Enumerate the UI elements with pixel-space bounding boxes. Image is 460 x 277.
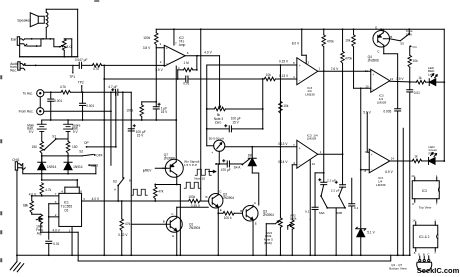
svg-text:13: 13 (390, 77, 394, 81)
wire supply rail y120 (42, 119, 177, 121)
wire ear bottom rail (20, 45, 78, 56)
resistor 100k input bias (143, 29, 158, 48)
wire jack link vertical (39, 97, 41, 108)
svg-text:0.001: 0.001 (54, 99, 62, 103)
0.14V label pin6 (278, 160, 297, 165)
svg-text:B: B (163, 220, 165, 224)
scan artifacts left edge (0, 0, 99, 262)
wire ear top contact (25, 38, 54, 40)
svg-text:10: 10 (365, 84, 369, 88)
svg-text:100k: 100k (126, 108, 133, 112)
wire Vcc row to IC1 (41, 174, 79, 194)
pin1 wire IC1 to ground (69, 226, 73, 256)
feedback right column (196, 56, 198, 71)
capacitor 470uF (221, 160, 243, 172)
svg-text:5.1 V: 5.1 V (367, 230, 375, 234)
svg-text:Top View: Top View (419, 206, 432, 210)
IC2 label (179, 36, 186, 47)
svg-text:2N3906: 2N3906 (164, 156, 175, 160)
svg-text:Ear: Ear (11, 37, 17, 41)
wire ear ring contact (27, 39, 41, 47)
resistor 10k vertical divider (279, 101, 289, 113)
svg-text:7.9 V: 7.9 V (396, 77, 404, 81)
resistor 150 main (32, 141, 44, 162)
pin7 wire to bus (174, 29, 177, 45)
wire battery row to S2 (41, 155, 82, 157)
pin6 output wire (185, 50, 219, 56)
right bus column (443, 29, 445, 161)
capacitor 100uF 15V meter (207, 117, 263, 132)
svg-text:10k: 10k (283, 104, 289, 108)
svg-text:11: 11 (365, 69, 368, 73)
diode D2 1N914 (64, 156, 83, 174)
wire speaker box right (77, 9, 79, 57)
wire meter bottom (218, 151, 220, 164)
svg-text:150: 150 (32, 145, 38, 149)
column x180 to ground (179, 184, 181, 256)
svg-text:0.14 V: 0.14 V (278, 160, 288, 164)
zener diode 5.1V (356, 227, 376, 256)
IC1and2 DIP package (412, 218, 438, 255)
svg-text:7.6 V: 7.6 V (331, 67, 339, 71)
switch S6B (327, 187, 346, 256)
svg-text:SeekIC.com: SeekIC.com (417, 266, 460, 275)
meter M1 50-0-50 uA (209, 136, 225, 155)
svg-text:A: A (114, 187, 116, 191)
svg-text:+: + (166, 47, 168, 51)
svg-text:14: 14 (411, 174, 415, 178)
svg-text:Bottom View: Bottom View (389, 267, 407, 271)
svg-text:0.01: 0.01 (183, 81, 189, 85)
resistor 4.7k bias (40, 183, 52, 196)
potentiometer 100k freq adj (32, 213, 44, 236)
wire jog to 0.1 column (315, 172, 325, 207)
svg-text:0.1: 0.1 (354, 206, 359, 210)
TP1 test point (69, 65, 75, 79)
switch S1 (43, 134, 68, 150)
svg-text:2N3904: 2N3904 (189, 226, 200, 230)
svg-text:15 V: 15 V (232, 120, 239, 124)
svg-text:0.01: 0.01 (414, 91, 420, 95)
0.15V label pin5 (279, 59, 295, 66)
svg-text:C: C (427, 253, 429, 257)
wire zero-set column x206 (206, 65, 208, 146)
wire resistor to cap 4.7uF (70, 91, 115, 93)
wire Q4 collector to 0.005 column (384, 54, 398, 109)
svg-text:LM339: LM339 (305, 92, 315, 96)
wire diode output row (41, 173, 96, 175)
svg-text:3.9 V: 3.9 V (155, 68, 163, 72)
feedback left column (177, 70, 179, 79)
transformer coil T1 (46, 9, 48, 39)
svg-text:On: On (413, 45, 417, 49)
wire 4.0V node to pin7 (31, 192, 59, 197)
main battery label (27, 123, 34, 134)
svg-text:+: + (371, 153, 373, 157)
transistor bottom view (389, 253, 432, 272)
From Rec jack J4 (19, 108, 44, 115)
IC3d output wire 7.9V (390, 77, 417, 83)
svg-text:6.9 V: 6.9 V (385, 170, 393, 174)
svg-text:10k: 10k (413, 59, 419, 63)
capacitor 0.1 second (349, 178, 359, 256)
CHG sleeve column to ground (16, 170, 18, 255)
svg-text:2.2 µF: 2.2 µF (331, 188, 340, 192)
capacitor 0.047 uF (75, 58, 88, 68)
wire A node down (117, 186, 119, 202)
To Acc jack J3 (23, 90, 44, 97)
node column x110 (110, 92, 112, 165)
wire speaker box top (46, 8, 77, 10)
svg-text:4.7k: 4.7k (93, 67, 99, 71)
svg-text:LM339: LM339 (376, 183, 386, 187)
svg-text:470k: 470k (345, 57, 352, 61)
resistor 10k S5 (408, 46, 418, 82)
pin2 wire IC3a (302, 55, 310, 64)
waveform glyph S3 (131, 189, 147, 195)
svg-text:−: − (299, 79, 301, 83)
audio jack J2 (18, 62, 25, 70)
svg-text:B: B (423, 253, 425, 257)
resistor 100k lower (126, 102, 143, 120)
main battery B1 (37, 120, 46, 141)
svg-text:XMIT: XMIT (91, 164, 99, 168)
resistor 100k to Q2 base (188, 195, 209, 208)
potentiometer 8 ohm wiper arrow (60, 45, 63, 46)
svg-text:E: E (255, 221, 257, 225)
svg-text:Note 10: Note 10 (194, 176, 205, 180)
IC1 TLC555 box (59, 193, 82, 226)
wire pin9 IC3c (367, 112, 369, 152)
op-amp IC2 741 (164, 45, 185, 66)
TP2 test point (78, 81, 84, 93)
resistor 10k pullup3 (345, 29, 355, 88)
diode D8 (248, 147, 257, 173)
capacitor 2.2uF S6A (319, 71, 336, 184)
svg-text:68k: 68k (23, 203, 29, 207)
8.0V rail column (292, 29, 302, 55)
wire to op-amp pin2 (102, 64, 165, 66)
svg-text:3.8 V: 3.8 V (143, 46, 151, 50)
svg-text:S2: S2 (79, 150, 83, 154)
ground symbol (9, 255, 24, 272)
resistor 4.7k acc (60, 85, 71, 94)
svg-text:4.7k: 4.7k (45, 188, 51, 192)
svg-text:IC3: IC3 (422, 189, 427, 193)
svg-text:D8: D8 (248, 153, 252, 157)
svg-text:S4 A: S4 A (234, 166, 242, 170)
svg-text:100k: 100k (188, 195, 195, 199)
capacitor 0.005 (383, 109, 400, 256)
LED red left (426, 66, 446, 86)
svg-text:−: − (372, 87, 374, 91)
pin3 output IC1 (82, 197, 189, 201)
svg-text:4.7k: 4.7k (60, 85, 66, 89)
capacitor 0.1 left (305, 207, 318, 256)
svg-text:0.13 V: 0.13 V (278, 142, 288, 146)
wire S4B column (265, 224, 267, 256)
svg-text:ϕREV: ϕREV (143, 168, 152, 172)
resistor 1k LED green (412, 155, 421, 163)
capacitor 0.001 first (48, 92, 63, 121)
column pin6-pin2-cap (48, 204, 50, 240)
svg-text:1N914: 1N914 (47, 165, 57, 169)
svg-text:−: − (299, 162, 301, 166)
wire comparator feed lower (104, 65, 264, 82)
spare battery B2 (64, 120, 73, 141)
column pin5 node down (279, 65, 281, 214)
svg-text:50-0-50 µA: 50-0-50 µA (209, 136, 225, 140)
svg-text:Zero: Zero (215, 121, 222, 125)
spare battery label (72, 123, 81, 134)
svg-text:1 M: 1 M (183, 61, 189, 65)
svg-text:2.2 µF: 2.2 µF (327, 178, 336, 182)
svg-text:S3: S3 (113, 180, 117, 184)
pin6 wire IC1 (49, 200, 59, 204)
comparator IC3c (365, 149, 390, 187)
column meter right x262 (262, 78, 264, 130)
comparator IC3b (297, 133, 318, 168)
capacitor 1uF 15V (153, 102, 168, 120)
svg-text:0.001: 0.001 (86, 104, 94, 108)
pin4 wire down (175, 66, 180, 121)
svg-text:B: B (206, 195, 208, 199)
svg-text:2N3904: 2N3904 (223, 196, 234, 200)
wire meter left (207, 145, 214, 147)
switch S4A (234, 159, 250, 170)
wire pot top to box edge (64, 38, 72, 40)
LED green right (422, 145, 446, 165)
svg-text:S6B: S6B (336, 211, 342, 215)
svg-text:IC1 & 2: IC1 & 2 (419, 235, 430, 239)
comparator IC3d (365, 69, 390, 105)
wire cap to resistor (82, 64, 93, 66)
svg-text:TP1: TP1 (69, 75, 75, 79)
wire return line bottom (78, 255, 391, 261)
comparator IC3a (297, 58, 318, 97)
resistor 100k Q3 base (218, 211, 242, 220)
svg-text:E: E (220, 208, 222, 212)
pin2 wire IC1 (48, 213, 59, 218)
wire Q1 collector cross-couple (177, 206, 209, 208)
svg-text:+: + (299, 64, 301, 68)
resistor 47k upper (153, 184, 163, 202)
IC3a output 7.6V wire (318, 67, 371, 73)
node 3.8V junction (142, 101, 157, 103)
svg-text:14: 14 (412, 218, 416, 222)
svg-text:15 V: 15 V (137, 133, 144, 137)
svg-text:47k: 47k (158, 190, 164, 194)
svg-text:S1: S1 (52, 134, 56, 138)
resistor 470k pullup1 (322, 29, 334, 71)
IC3 DIP package top view (411, 174, 439, 210)
potentiometer 5k zero (207, 105, 263, 125)
svg-text:4.7 µF: 4.7 µF (108, 85, 117, 89)
svg-text:LM339: LM339 (377, 100, 387, 104)
svg-text:0.047 µF: 0.047 µF (75, 58, 88, 62)
column 100uF audio x131 (128, 92, 146, 255)
column V+ long x200 (200, 29, 202, 201)
resistor 47k lower (120, 200, 131, 256)
svg-text:LM339: LM339 (307, 137, 317, 141)
capacitor 2.2uF S6B (331, 154, 346, 192)
svg-text:+: + (372, 73, 374, 77)
transistor Q2 2N3904 (206, 164, 235, 213)
0.13V label pin7 (278, 142, 295, 147)
svg-text:10k: 10k (266, 73, 272, 77)
CHG jack J5 (12, 158, 25, 170)
svg-text:+: + (299, 146, 301, 150)
svg-text:0.15 V: 0.15 V (279, 59, 289, 63)
svg-text:CHG: CHG (12, 158, 20, 162)
svg-text:Rec.: Rec. (10, 69, 17, 73)
pin12 wire IC3b (310, 160, 315, 220)
potentiometer VR1 (264, 214, 283, 256)
svg-text:1k: 1k (414, 155, 418, 159)
wire meter right to pin7 (225, 146, 297, 148)
transistor Q1 2N3904 (163, 207, 201, 256)
potentiometer 8 ohm (62, 39, 66, 58)
svg-text:4.0 V: 4.0 V (92, 197, 100, 201)
svg-text:100k: 100k (143, 36, 150, 40)
node column x122 (122, 92, 124, 178)
node column long x104 (103, 78, 105, 255)
svg-text:100k: 100k (290, 217, 297, 221)
wire 470uF row (215, 163, 227, 165)
wire output to wiper column (219, 56, 221, 105)
svg-text:1N914: 1N914 (73, 165, 83, 169)
wire pin10 row (354, 84, 371, 89)
svg-text:150: 150 (72, 145, 78, 149)
potentiometer VR2 (288, 165, 297, 256)
svg-text:B: B (240, 209, 242, 213)
svg-text:Amp: Amp (179, 43, 186, 47)
svg-text:4.0 V: 4.0 V (204, 50, 212, 54)
switch S6A (319, 185, 328, 215)
svg-text:14: 14 (391, 157, 395, 161)
svg-text:Right: Right (429, 152, 436, 156)
svg-text:TP2: TP2 (78, 81, 84, 85)
transistor Q4 2N3906 (368, 25, 401, 62)
svg-text:15 V: 15 V (161, 110, 168, 114)
svg-text:0.01: 0.01 (53, 242, 59, 246)
svg-text:12: 12 (312, 162, 316, 166)
svg-text:2N3904: 2N3904 (263, 213, 274, 217)
wire comparator pin5 feed (207, 64, 297, 66)
wire Q2 emitter to ground (217, 212, 219, 256)
capacitor 0.01 IC1 (46, 241, 60, 256)
wire XMIT to diode row (89, 165, 96, 174)
wire to acc to 4.7k (44, 91, 61, 93)
resistor 1k LED red (416, 76, 425, 84)
wire cap to corner col131 (118, 91, 131, 93)
svg-text:E: E (418, 253, 420, 257)
resistor 10k comparator input (264, 73, 297, 81)
wire CHG tip to diode row (23, 164, 42, 174)
annotation arrow (209, 170, 216, 172)
resistor 68k (23, 196, 34, 213)
capacitor 0.1 pin12 (309, 219, 311, 256)
svg-text:−: − (371, 168, 373, 172)
waveform glyph note10 (194, 169, 211, 180)
wire box right edge (71, 39, 73, 57)
capacitor 0.01 S5 (407, 82, 420, 256)
switch S3 (113, 177, 131, 191)
svg-text:To Acc.: To Acc. (23, 92, 33, 96)
capacitor 0.001 second (80, 92, 95, 121)
ground bus main (16, 254, 410, 256)
svg-text:1k: 1k (418, 76, 422, 80)
wire from rec to column (44, 110, 112, 112)
node column x115 (115, 91, 117, 147)
resistor 1M feedback (178, 61, 197, 72)
wire pin8 IC3c (360, 169, 369, 171)
audio from rec label (10, 62, 18, 73)
svg-text:470 µF: 470 µF (221, 168, 231, 172)
svg-text:Shift: Shift (406, 32, 412, 36)
svg-text:4.0 V: 4.0 V (52, 228, 60, 232)
wire to wiper (54, 39, 61, 48)
wire D8 to Q3 collector (252, 173, 259, 205)
svg-text:Speaker: Speaker (17, 18, 31, 22)
resistor 150 spare (66, 141, 77, 162)
svg-text:470k: 470k (327, 39, 334, 43)
svg-text:Left: Left (428, 73, 433, 77)
svg-text:10k: 10k (345, 38, 351, 42)
svg-text:DP: DP (84, 141, 88, 145)
IC3c output wire 6.9V (385, 157, 412, 175)
svg-text:B: B (390, 35, 392, 39)
column 3.8V to 1uF node (155, 48, 157, 102)
zener column (360, 88, 362, 228)
diode D1 1N914 (38, 156, 57, 174)
svg-text:0.35 V: 0.35 V (191, 204, 201, 208)
column IC3c pin12 (402, 128, 404, 256)
wire pot wiper to node row (41, 224, 78, 233)
svg-text:100 k: 100 k (224, 216, 232, 220)
wire Q1 base (131, 223, 166, 225)
capacitor 4.7uF series (108, 85, 118, 96)
pin4 pin8 labels IC1 (61, 189, 82, 193)
svg-text:S6A: S6A (319, 211, 326, 215)
wire pin3 input op-amp (156, 42, 164, 48)
ear jack J1 (17, 37, 27, 46)
svg-text:0.1: 0.1 (305, 209, 310, 213)
switch S5 tone shift (400, 29, 417, 49)
svg-text:−: − (166, 62, 168, 66)
wire bottom return start (77, 232, 79, 261)
svg-text:From Rec.: From Rec. (19, 110, 34, 114)
svg-text:C6: C6 (64, 208, 68, 212)
svg-text:0.32 V: 0.32 V (118, 233, 128, 237)
IC3b output wire (318, 150, 344, 155)
resistor 4.7k series (92, 64, 101, 71)
transistor Q7 2N3906 (162, 120, 183, 184)
wire Q7 collector row (154, 184, 180, 186)
DP label and node (84, 141, 117, 148)
svg-text:2N3906: 2N3906 (368, 59, 379, 63)
0.13V label pin4 (279, 74, 295, 79)
transistor Q3 2N3904 (240, 201, 274, 256)
svg-text:47k: 47k (125, 222, 131, 226)
no signal annotation (184, 159, 199, 167)
svg-text:E: E (375, 25, 377, 29)
speaker SPK (30, 13, 44, 27)
resistor 470k pullup2 (341, 29, 353, 154)
svg-text:E: E (172, 234, 174, 238)
svg-text:(Both): (Both) (264, 241, 272, 245)
switch S2 (79, 150, 95, 167)
